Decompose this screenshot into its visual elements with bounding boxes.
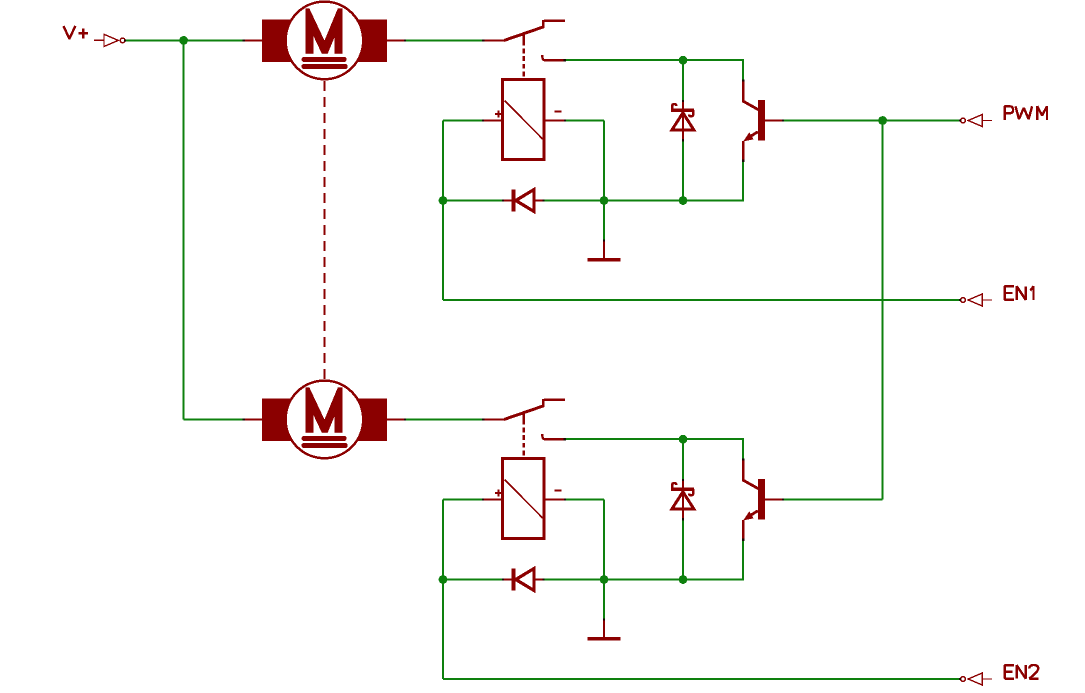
wire emitter net 1 [604,200,683,202]
zener diode Z1 cathode right hook [689,110,693,116]
wire V+ to motor M1 [126,39,245,41]
pin-wire joint Q1 collector [742,79,744,81]
transistor Q1 collector [743,81,758,110]
transistor Q2 base bar [758,479,765,520]
pin-wire joint Q2 emitter [742,539,744,541]
wire to ground 1 [603,201,605,241]
signal pin PWM [961,114,993,126]
relay switch K1 common lead [484,39,505,41]
pin-wire joint K2 coil- [564,498,566,500]
relay switch K2 NO contact [542,434,544,439]
junction zener Z2 bottom [679,575,688,584]
relay switch K2 common lead [484,418,505,420]
transistor Q1 base bar [758,100,765,141]
relay switch K2 NC contact [543,399,565,406]
pin-wire joint Q1 base [782,119,784,121]
pin-wire joint Z1 bottom [682,139,684,141]
pin-wire joint GND2 [603,619,605,621]
motor M2 right pin [385,418,406,420]
wire EN1 vertical [442,121,444,301]
relay switch K1 actuator dashed link [523,49,525,80]
zener diode Z2 top pin [682,480,684,489]
relay switch K1 arm [504,27,544,41]
relay coil K1 pin 1 (+) [483,120,503,122]
pin-wire joint K2 common [482,418,484,420]
pin-wire joint Z2 top [682,479,684,481]
wire base Q1 to PWM [783,120,960,122]
wire EN1 horizontal [443,299,961,301]
pin-wire joint D1 cathode [543,199,545,201]
transistor Q2 emitter arrow [743,511,753,520]
motor M1 [262,2,387,80]
net label EN1 [1005,286,1034,300]
pin-wire joint Q2 collector [742,458,744,460]
signal pin EN1 [961,294,993,306]
relay switch K2 actuator dashed link [523,428,525,459]
relay coil K1 pin 2 (-) [544,120,566,122]
wire V+ rail vertical [183,40,185,419]
wire zener Z2 bottom [682,519,684,579]
relay coil K2 plus label [495,490,502,497]
transistor Q2 base pin [765,499,784,501]
relay switch K2 actuator stem [523,413,525,425]
zener diode Z1 cathode bar [671,109,694,112]
junction diode D1 left [439,196,448,205]
signal pin EN2 [961,673,993,685]
zener diode Z2 cathode bar [671,488,694,491]
zener diode Z2 cathode left hook [672,483,676,490]
diode D1 cathode bar [512,190,516,212]
pin-wire joint Q2 base [782,498,784,500]
pin-wire joint M2 left [243,418,245,420]
wire coil K1 plus [443,120,483,122]
wire switch K1 NO to collector Q1 [565,59,743,61]
pin-wire joint Z2 bottom [682,518,684,520]
junction zener Z2 top [679,435,688,444]
zener diode Z2 cathode right hook [689,489,693,495]
pin-wire joint K2 NO [564,438,566,440]
junction V+ rail [179,36,188,45]
pin-wire joint EN1 [959,299,961,301]
wire base Q2 [783,499,882,501]
ground symbol GND1 bar [587,258,620,262]
relay coil K2 pin 1 (+) [483,499,503,501]
diode D1 pin cathode [503,199,513,201]
pin-wire joint M1 right [404,39,406,41]
pin-wire joint V+ [124,39,126,41]
wire to ground 2 [603,580,605,620]
pin-wire joint K1 coil- [564,119,566,121]
net label PWM [1005,106,1047,120]
pin-wire joint Z1 top [682,100,684,102]
pin-wire joint D1 anode [502,199,504,201]
pin-wire joint GND1 [603,240,605,242]
wire coil K2 plus [443,499,483,501]
zener diode Z2 triangle [672,492,694,509]
junction zener Z1 bottom [679,196,688,205]
pin-wire joint M1 left [243,39,245,41]
relay coil K2 minus label [554,489,561,491]
motor M2 [262,381,387,459]
motor mechanical link dashed [323,81,325,380]
transistor Q1 base pin [765,120,784,122]
wire EN2 vertical [442,500,444,680]
wire down to collector Q2 [742,438,744,460]
junction ground net 1 [600,196,609,205]
zener diode Z1 triangle [672,113,694,130]
relay coil K1 plus label [495,111,502,118]
zener diode Z2 bottom pin [682,509,684,520]
diode D2 pin anode [534,578,545,580]
wire emitter net 3 [604,579,683,581]
relay coil K2 pin 2 (-) [544,499,566,501]
relay coil K1 minus label [554,110,561,112]
zener diode Z1 bottom pin [682,130,684,141]
diode D2 pin cathode [503,578,513,580]
motor M1 left pin [244,39,263,41]
transistor Q2 collector [743,460,758,489]
wire diode D2 net [443,579,604,581]
pin-wire joint D2 cathode [543,578,545,580]
junction PWM [878,116,887,125]
motor M2 left pin [244,418,263,420]
pin-wire joint M2 right [404,418,406,420]
diode D2 cathode bar [512,569,516,591]
ground symbol GND2 pin [603,619,605,637]
relay switch K2 arm [504,406,544,420]
wire diode D1 net [443,200,604,202]
wire emitter Q2 down [742,540,744,580]
relay coil K2 [503,459,544,539]
wire coil K1 minus [565,120,604,122]
zener diode Z1 top pin [682,101,684,110]
wire motor M2 to switch K2 [406,418,485,420]
wire coil K2 minus vertical [603,500,605,580]
wire coil K2 minus [565,499,604,501]
wire motor M1 to switch K1 [406,39,485,41]
motor M1 right pin [385,39,406,41]
zener diode Z2 center line [682,490,684,510]
relay switch K1 NC contact [543,20,565,27]
pin-wire joint K1 common [482,39,484,41]
wire down to collector Q1 [742,59,744,81]
relay switch K1 NO contact [542,55,544,60]
transistor Q1 emitter arrow [743,132,753,141]
transistor Q1 emitter [743,132,758,161]
net label V+ [64,26,89,39]
relay switch K1 actuator stem [523,34,525,46]
transistor Q2 emitter [743,511,758,540]
wire switch K2 NO to collector Q2 [565,438,743,440]
junction ground net 2 [600,575,609,584]
pin-wire joint K1 NO [564,59,566,61]
relay coil K1 [503,80,544,160]
diode D1 triangle [516,190,534,212]
diode D2 triangle [516,569,534,591]
zener diode Z1 cathode left hook [672,104,676,111]
pin-wire joint K2 coil+ [482,498,484,500]
diode D1 pin anode [534,199,545,201]
wire coil K1 minus vertical [603,121,605,201]
ground symbol GND1 pin [603,240,605,258]
zener diode Z1 center line [682,111,684,131]
junction diode D2 left [439,575,448,584]
pin-wire joint D2 anode [502,578,504,580]
wire V+ rail to motor M2 [184,418,245,420]
wire zener Z1 bottom [682,140,684,200]
wire emitter net 4 [683,579,744,581]
net label EN2 [1005,665,1039,679]
pin-wire joint PWM [959,119,961,121]
wire emitter Q1 down [742,161,744,201]
wire to zener Z2 top [682,439,684,480]
pin-wire joint Q1 emitter [742,160,744,162]
ground symbol GND2 bar [587,637,620,641]
junction zener Z1 top [679,56,688,65]
pin-wire joint EN2 [959,678,961,680]
supply pin V+ [94,34,125,46]
wire EN2 horizontal [443,678,961,680]
wire emitter net 2 [683,200,744,202]
wire PWM to base Q2 vertical [882,121,884,500]
pin-wire joint K1 coil+ [482,119,484,121]
wire to zener Z1 top [682,60,684,101]
